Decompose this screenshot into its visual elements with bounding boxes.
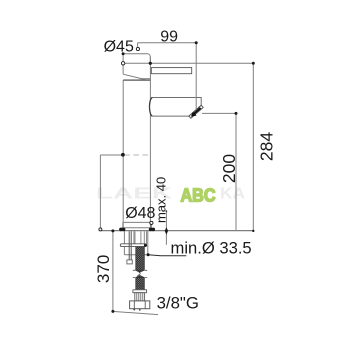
dim 370 vertical line — [112, 231, 114, 312]
max40 diamond — [165, 227, 168, 234]
dim 99 left tick — [137, 43, 139, 48]
svg-text:Ø48: Ø48 — [125, 205, 155, 222]
svg-text:max. 40: max. 40 — [154, 177, 169, 223]
svg-text:KA: KA — [220, 186, 245, 203]
break ticks upper — [133, 269, 147, 271]
reference line end circle — [99, 228, 102, 231]
reference line solid left — [100, 154, 123, 156]
svg-text:99: 99 — [160, 29, 178, 46]
markers / dots — [122, 52, 125, 55]
braid lower taper — [136, 275, 145, 277]
braid upper taper — [136, 270, 145, 272]
reference vertical — [99, 155, 101, 228]
dim 48 left tick — [122, 222, 124, 227]
break squiggle — [138, 272, 141, 277]
hose collar — [133, 290, 147, 293]
reference line dashed across column — [125, 154, 151, 156]
mounting stud — [129, 231, 131, 260]
washer end dot — [144, 244, 147, 247]
aerator black streak — [193, 108, 200, 115]
shank inner lines — [134, 231, 147, 244]
dim 200 vertical line — [235, 113, 237, 230]
dim 284 vertical line — [252, 63, 254, 231]
svg-text:Ø45: Ø45 — [104, 39, 134, 56]
shank left wall — [123, 231, 125, 255]
spout back arc emphasized — [149, 98, 152, 117]
dim 99 right extension down to spout — [195, 43, 197, 110]
svg-text:min.Ø 33.5: min.Ø 33.5 — [171, 239, 252, 258]
svg-text:3/8"G: 3/8"G — [157, 293, 199, 312]
braided hose upper — [136, 247, 145, 270]
cap top line — [123, 54, 150, 64]
body column right edge — [149, 57, 151, 228]
dim 99 line — [138, 42, 197, 44]
shank right wall — [147, 231, 149, 255]
min leader — [148, 254, 186, 257]
head left edge — [122, 54, 124, 74]
aerator black arrowhead — [191, 112, 197, 117]
flange left side — [121, 228, 123, 231]
dim 370 bottom leader — [113, 311, 158, 314]
spout — [149, 98, 201, 117]
dim 284 top extension — [150, 62, 253, 64]
braided hose lower — [136, 278, 145, 291]
dim 200 leader from aerator — [202, 112, 236, 114]
aerator band outline — [189, 105, 203, 118]
stud end box — [127, 260, 132, 264]
svg-text:370: 370 — [94, 255, 113, 283]
hose crimp neck — [135, 293, 145, 301]
max40 vertical line — [165, 211, 167, 245]
dim 48 line — [123, 221, 152, 223]
deck line — [102, 230, 254, 232]
head chamfer — [123, 74, 145, 79]
break ticks lower — [133, 277, 147, 279]
washer — [120, 244, 146, 247]
svg-text:ABC: ABC — [181, 185, 216, 206]
body column left edge — [122, 80, 124, 228]
hex nut — [130, 301, 150, 309]
head junction line B — [123, 79, 150, 81]
cap bottom line — [123, 62, 150, 64]
flange right side — [151, 228, 153, 231]
dim 48 right tick — [150, 223, 152, 228]
max40 line top dot — [166, 210, 168, 212]
reference line node dot — [121, 153, 125, 157]
lever handle — [151, 68, 191, 74]
nut bottom stubs — [133, 309, 135, 311]
svg-text:200: 200 — [219, 154, 239, 183]
svg-text:284: 284 — [257, 132, 277, 161]
head junction line A — [140, 78, 151, 80]
shank tube bottom — [124, 254, 147, 256]
flange top — [122, 227, 152, 229]
